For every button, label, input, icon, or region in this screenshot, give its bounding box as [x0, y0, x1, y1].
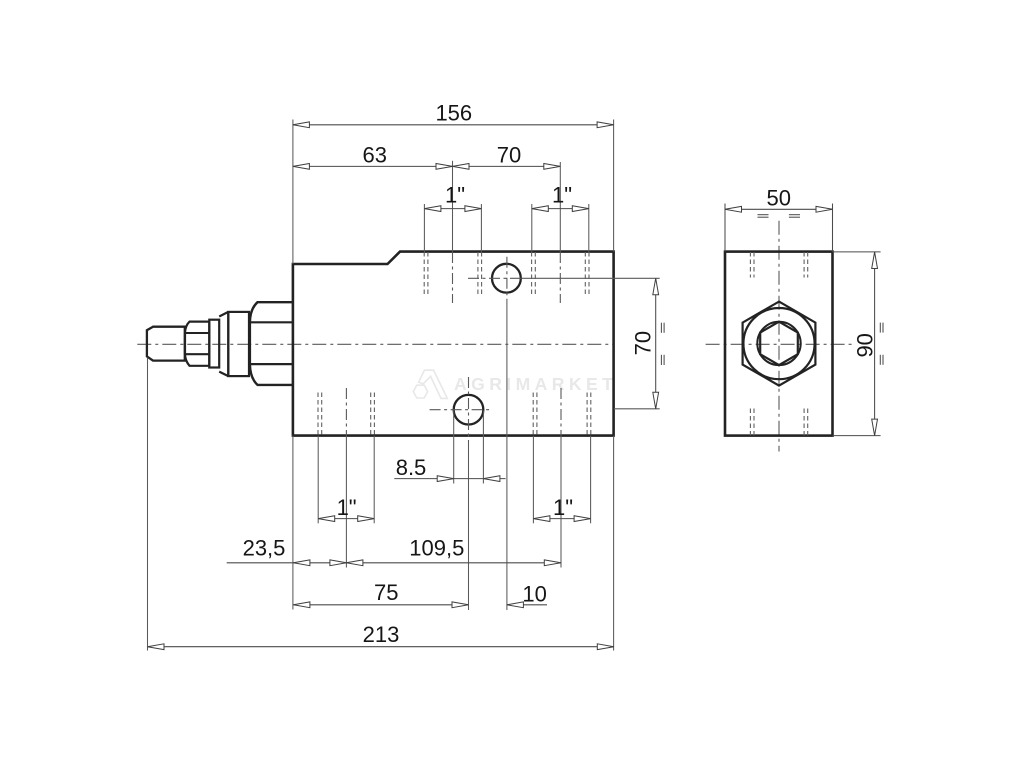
- dimension 8.5: [394, 478, 505, 480]
- cylinder section: [228, 312, 249, 376]
- svg-text:50: 50: [767, 185, 791, 210]
- svg-text:213: 213: [363, 622, 400, 647]
- top gauge hole: [492, 264, 521, 293]
- svg-text:1": 1": [553, 495, 573, 520]
- hidden thread lines top port 1: [424, 252, 481, 295]
- right view block: [725, 252, 833, 436]
- washer collar: [209, 320, 219, 368]
- 70 vertical arrows: [653, 278, 659, 295]
- svg-text:1": 1": [337, 495, 357, 520]
- dimension 50: [725, 204, 833, 252]
- right view arrowheads: [725, 206, 878, 435]
- svg-text:1": 1": [552, 183, 572, 208]
- dimension 70 vertical: [656, 278, 664, 409]
- right view texts: [767, 185, 878, 357]
- 1" top1 arrows: [424, 206, 441, 212]
- hidden thread lines bottom port 1: [318, 393, 374, 436]
- hidden thread lines bottom port 2: [533, 393, 591, 436]
- dim texts main: [243, 101, 656, 647]
- dimension 156: [293, 124, 614, 126]
- 70 arrows: [453, 164, 470, 170]
- 10 arrow: [507, 602, 524, 608]
- plug outer hex: [743, 302, 816, 386]
- dimension 1" top ports: [424, 208, 588, 210]
- locknut hex1: [185, 322, 209, 366]
- 63 arrows: [293, 164, 310, 170]
- dimension 90: [833, 252, 884, 436]
- cone section: [219, 312, 228, 376]
- 1" bottom2 arrows: [533, 516, 550, 522]
- 1" bottom1 arrows: [318, 516, 335, 522]
- svg-text:AGRIMARKET: AGRIMARKET: [454, 374, 617, 394]
- 109,5 arrows: [346, 560, 363, 566]
- 156 arrows: [293, 122, 310, 128]
- dimension 75 and 10: [293, 604, 547, 606]
- plug chamfer circle: [743, 308, 814, 379]
- right view centerlines: [706, 221, 855, 452]
- socket hex: [760, 322, 798, 365]
- svg-text:63: 63: [362, 142, 386, 167]
- svg-text:156: 156: [435, 101, 472, 126]
- dimension 213: [148, 646, 614, 648]
- socket circle: [757, 322, 800, 365]
- 1" top2 arrows: [532, 206, 549, 212]
- 75 arrows: [293, 602, 310, 608]
- bottom gauge hole: [454, 395, 484, 425]
- port centerlines dashdot: [346, 252, 561, 441]
- svg-text:90: 90: [852, 333, 877, 357]
- svg-text:70: 70: [631, 331, 656, 355]
- svg-text:8.5: 8.5: [396, 455, 427, 480]
- dimension 63 and 70: [293, 165, 560, 167]
- svg-text:10: 10: [522, 582, 546, 607]
- hidden thread lines top port 2: [532, 252, 589, 295]
- watermark logo: [413, 370, 447, 398]
- svg-text:75: 75: [374, 580, 398, 605]
- extension lines: [148, 120, 660, 651]
- main block outline: [293, 252, 614, 436]
- svg-text:109,5: 109,5: [409, 535, 464, 560]
- 8.5 arrows: [437, 476, 454, 482]
- dimension 23,5 and 109,5: [227, 562, 561, 564]
- svg-text:70: 70: [497, 142, 521, 167]
- right view hidden port lines: [750, 252, 807, 436]
- body hex2: [250, 302, 293, 385]
- 23,5 arrows: [293, 560, 310, 566]
- svg-text:23,5: 23,5: [243, 535, 286, 560]
- screw stem: [147, 327, 185, 361]
- dimension 1" bottom ports: [318, 518, 590, 520]
- svg-text:1": 1": [445, 183, 465, 208]
- ARROWHEADS main view: [148, 122, 659, 650]
- main centerline: [137, 343, 613, 345]
- 213 arrows: [148, 644, 165, 650]
